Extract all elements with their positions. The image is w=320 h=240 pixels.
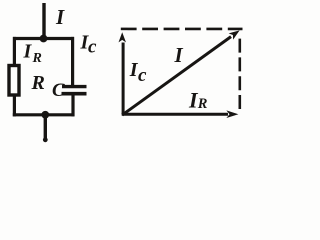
wire: dashed parallelogram top edge bbox=[121, 28, 243, 31]
wire: right branch upper (to capacitor) bbox=[71, 37, 74, 86]
phasor arrow I (resultant diagonal) bbox=[122, 30, 239, 115]
node bottom junction bbox=[41, 111, 49, 119]
svg-text:R: R bbox=[197, 96, 208, 112]
svg-text:I: I bbox=[55, 5, 65, 29]
wire: bottom supply lead bbox=[44, 115, 47, 140]
wire: top horizontal of loop bbox=[13, 37, 74, 40]
phasor arrow I_C (vertical) bbox=[119, 32, 127, 114]
wire: left branch lower (resistor to bottom) bbox=[13, 96, 16, 116]
svg-text:I: I bbox=[174, 43, 184, 67]
svg-text:I: I bbox=[23, 40, 33, 62]
svg-text:c: c bbox=[88, 37, 97, 58]
wire: left branch upper (to resistor) bbox=[13, 37, 16, 65]
svg-text:R: R bbox=[32, 51, 42, 66]
phasor arrow I_R (horizontal) bbox=[122, 110, 239, 118]
wire: top supply lead bbox=[42, 3, 45, 39]
svg-text:c: c bbox=[138, 65, 147, 86]
svg-text:C: C bbox=[52, 80, 65, 101]
wire: right branch lower (capacitor to bottom) bbox=[71, 95, 74, 116]
node top junction bbox=[40, 35, 48, 43]
svg-text:R: R bbox=[31, 72, 45, 94]
capacitor C top plate bbox=[62, 85, 87, 88]
wire: bottom horizontal of loop bbox=[13, 113, 74, 116]
capacitor C bottom plate bbox=[62, 92, 87, 96]
resistor R (rectangle body) bbox=[9, 66, 19, 96]
wire: dashed parallelogram right edge bbox=[239, 39, 242, 109]
